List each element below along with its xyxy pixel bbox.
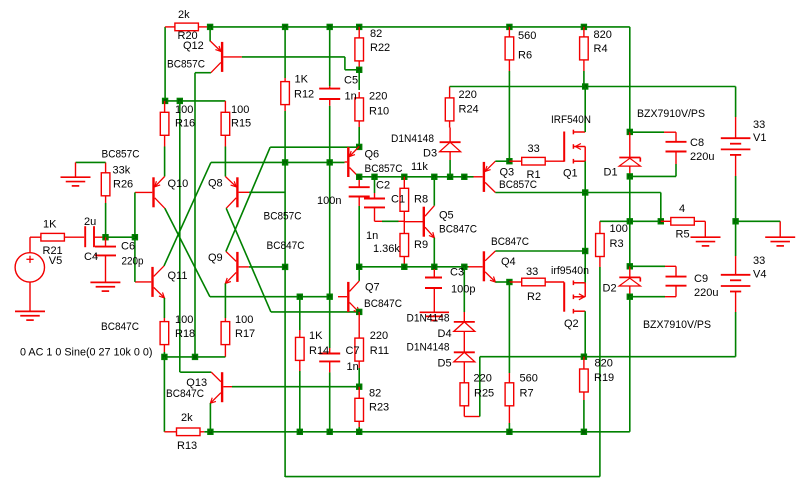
label R11 value	[370, 330, 388, 342]
label Q5 name	[439, 210, 454, 222]
svg-text:0 AC 1 0 Sine(0 27 10k 0 0): 0 AC 1 0 Sine(0 27 10k 0 0)	[20, 347, 153, 359]
wire R25 to -V	[479, 357, 481, 417]
node output / Q3 collector	[582, 189, 588, 195]
mosfet Q1	[563, 130, 585, 164]
wire Q12 base	[223, 56, 345, 58]
lead R14 top red	[299, 330, 301, 337]
node R2 left node	[506, 279, 512, 285]
wire R16 R15 tops	[165, 100, 225, 102]
label R20 value	[178, 9, 190, 21]
lead Q4 base	[468, 266, 483, 268]
resistor R6	[505, 37, 514, 60]
node D1 bottom node	[627, 173, 633, 179]
svg-text:33: 33	[753, 255, 765, 267]
wire R11 bottom	[358, 368, 360, 387]
lead R26 bottom	[105, 196, 107, 203]
label R13 value	[181, 412, 193, 424]
node bus1 / R8	[401, 174, 407, 180]
wire Q1 drain	[584, 87, 586, 133]
wire output rail upper	[584, 161, 586, 283]
wire +V rail	[450, 86, 736, 88]
wire VAS bus	[359, 176, 473, 178]
svg-text:C9: C9	[694, 273, 708, 285]
wire Q8 collector horizontal	[271, 311, 359, 313]
lead R17 bottom	[224, 345, 226, 357]
svg-text:D4: D4	[438, 328, 452, 340]
node input node R26/C4	[102, 234, 108, 240]
transistor Q8	[225, 177, 238, 209]
wire V1 bottom	[735, 176, 737, 221]
transistor Q10	[152, 177, 165, 209]
lead R10 bottom	[358, 121, 360, 127]
wire Q4 emitter	[495, 281, 509, 283]
svg-text:33: 33	[526, 266, 538, 278]
label Q6 type	[365, 163, 403, 175]
node rail1 / R19	[581, 429, 587, 435]
label R6 name	[518, 50, 532, 62]
wire V1 minus to ground	[736, 220, 781, 222]
label R26 name	[113, 179, 133, 191]
label R19 name	[594, 372, 614, 384]
wire R3 bottom	[599, 267, 601, 477]
lead R6 bottom	[508, 60, 510, 71]
svg-text:BC847C: BC847C	[101, 321, 139, 333]
svg-text:220p: 220p	[122, 255, 144, 267]
label C8 name	[690, 137, 704, 149]
svg-text:BC847C: BC847C	[267, 240, 305, 252]
lead R7 bottom	[508, 406, 510, 423]
label R3 value	[610, 223, 628, 235]
node rail1 / R7	[506, 429, 512, 435]
node top rail / R4	[581, 24, 587, 30]
svg-text:R22: R22	[370, 42, 390, 54]
label R9 value	[373, 243, 400, 255]
resistor R9	[400, 234, 409, 257]
label R22 value	[370, 28, 382, 40]
svg-text:1K: 1K	[43, 219, 57, 231]
node bus1 / D4 string	[461, 174, 467, 180]
node bus2 / Q5 emitter	[431, 264, 437, 270]
svg-text:820: 820	[594, 29, 612, 41]
svg-text:1.36k: 1.36k	[373, 243, 400, 255]
wire top rail	[210, 26, 630, 28]
svg-text:R18: R18	[175, 328, 195, 340]
label Q11 name	[168, 270, 188, 282]
wire Q3 collector	[495, 192, 585, 194]
wire Q3 emitter	[495, 160, 509, 162]
zener diode D1	[619, 132, 640, 177]
label Q10 name	[168, 178, 189, 190]
label C2 name	[376, 180, 390, 192]
wire x330 vertical upper	[329, 162, 331, 296]
lead Q13 base	[223, 386, 232, 388]
label R9 name	[414, 239, 428, 251]
wire R10 to Q6 node	[358, 127, 360, 147]
lead R19 bottom	[583, 392, 585, 400]
wire Q11 collector diagonal	[164, 162, 211, 266]
svg-text:C4: C4	[84, 251, 98, 263]
svg-text:100: 100	[610, 223, 628, 235]
label R24 value	[459, 89, 477, 101]
svg-text:220: 220	[474, 373, 492, 385]
lead R18 bottom	[163, 345, 165, 352]
wire D1 to D2	[629, 176, 631, 266]
svg-text:C5: C5	[344, 75, 358, 87]
label R12 value	[295, 73, 309, 85]
label V4 name	[753, 269, 766, 281]
resistor R8	[400, 188, 409, 211]
capacitor C4	[85, 226, 105, 247]
lead R15 bottom	[224, 135, 226, 146]
resistor R11	[355, 338, 364, 361]
label R15 value	[231, 104, 249, 116]
label C5 name	[344, 75, 358, 87]
lead R4 top	[583, 27, 585, 37]
lead R18 top	[163, 318, 165, 322]
label R7 name	[520, 387, 534, 399]
wire R14 top	[299, 297, 301, 330]
capacitor C3	[425, 269, 442, 312]
resistor R19	[580, 369, 589, 392]
label Q1 model	[551, 114, 591, 126]
label D1 model	[637, 108, 705, 120]
label D5 model	[407, 342, 450, 354]
svg-text:BC847C: BC847C	[491, 236, 529, 248]
label Q13 type	[166, 388, 204, 400]
wire Q12 base bend	[345, 57, 359, 70]
svg-text:Q5: Q5	[439, 210, 454, 222]
label Q12 name	[183, 40, 204, 52]
label R16 name	[175, 118, 195, 130]
label R21 value	[43, 219, 57, 231]
wire rail1	[204, 431, 630, 433]
label Q3 type	[499, 179, 537, 191]
wire R26 to ground	[76, 161, 106, 163]
svg-text:100n: 100n	[317, 195, 341, 207]
label R2 name	[527, 291, 541, 303]
resistor R22	[355, 38, 364, 61]
label R14 name	[309, 345, 329, 357]
label R26 type	[102, 149, 140, 161]
lead R9 top	[403, 221, 405, 233]
ground R5 ground	[691, 221, 721, 246]
lead R22 top	[358, 27, 360, 38]
resistor R10	[355, 98, 364, 121]
svg-text:1n: 1n	[366, 230, 378, 242]
svg-text:C7: C7	[346, 345, 360, 357]
label C9 value	[694, 287, 718, 299]
svg-text:1K: 1K	[295, 73, 309, 85]
svg-text:IRF540N: IRF540N	[551, 114, 591, 126]
lead R26 top	[105, 162, 107, 172]
resistor R23	[355, 398, 364, 421]
wire Q8 base	[249, 191, 285, 193]
wire C8 bottom	[630, 164, 676, 176]
lead R24 bottom	[449, 121, 451, 128]
label Q3 name	[500, 167, 515, 179]
label D3 name	[423, 148, 437, 160]
label R23 name	[369, 402, 389, 414]
wire D string top	[629, 27, 631, 132]
svg-text:R3: R3	[610, 238, 624, 250]
node R12 bus left	[282, 159, 288, 165]
svg-text:220: 220	[370, 330, 388, 342]
transistor Q4	[483, 251, 496, 282]
node Q7 emitter node	[356, 309, 362, 315]
label R1 name	[527, 169, 541, 181]
wire R20 left drop	[164, 27, 166, 101]
label R20 name	[178, 30, 198, 42]
label Q4 name	[501, 256, 516, 268]
wire Q10 collector diagonal	[165, 208, 210, 296]
svg-text:Q11: Q11	[168, 270, 188, 282]
wire R7 bottom	[508, 423, 510, 432]
voltage source V1	[721, 117, 751, 176]
lead R9 bottom	[403, 257, 405, 267]
lead R24 top	[449, 87, 451, 98]
lead R7 top	[508, 373, 510, 383]
node sense / R5	[658, 218, 664, 224]
label R8 name	[414, 194, 428, 206]
wire D4 top	[463, 267, 465, 312]
resistor R14	[296, 337, 305, 360]
node input node bases	[132, 234, 138, 240]
node R16 top	[162, 98, 168, 104]
svg-text:R9: R9	[414, 239, 428, 251]
svg-text:BC857C: BC857C	[365, 163, 403, 175]
label Q2 model	[551, 265, 589, 277]
label R5 name	[676, 229, 690, 241]
label R22 name	[370, 42, 390, 54]
svg-text:220u: 220u	[690, 151, 714, 163]
svg-text:R23: R23	[369, 402, 389, 414]
wire C1 bottom	[375, 177, 405, 222]
node D2 top node	[627, 263, 633, 269]
label V1 name	[753, 132, 766, 144]
svg-text:R2: R2	[527, 291, 541, 303]
wire R12 top	[284, 27, 286, 82]
label C6 name	[121, 240, 135, 252]
label C1 name	[391, 194, 405, 206]
capacitor C2	[349, 180, 370, 206]
node +V rail / Q1 drain	[582, 83, 588, 89]
resistor R1	[509, 157, 564, 165]
node Q7 base node	[327, 294, 333, 300]
svg-text:R21: R21	[43, 245, 63, 257]
label R8 value	[411, 161, 428, 173]
node Q12 collector bottom	[192, 354, 198, 360]
wire Q11 emitter	[163, 298, 165, 318]
lead Q6 base	[345, 161, 348, 163]
svg-text:Q4: Q4	[501, 256, 516, 268]
label Q5 type	[439, 224, 477, 236]
node top rail / R6	[506, 24, 512, 30]
wire R19 bottom	[583, 400, 585, 432]
lead R6 top	[508, 27, 510, 37]
wire C7 bottom	[329, 372, 331, 431]
svg-text:100: 100	[235, 314, 253, 326]
label R5 value	[679, 203, 685, 215]
label Q13 name	[186, 377, 207, 389]
node D2 bottom node	[627, 294, 633, 300]
label D2 name	[603, 283, 617, 295]
label R11 name	[370, 345, 389, 357]
svg-text:V4: V4	[753, 269, 766, 281]
label Q1 name	[563, 168, 578, 180]
label V4 value	[753, 255, 765, 267]
wire R12 bottom	[284, 111, 286, 162]
wire R15 to Q8	[224, 147, 226, 177]
label D4 model	[407, 313, 450, 325]
svg-text:Q3: Q3	[500, 167, 515, 179]
lead Q11 base	[135, 281, 151, 283]
resistor R5	[661, 218, 706, 226]
node x180 vertical top	[177, 98, 183, 104]
svg-text:BC847C: BC847C	[439, 224, 477, 236]
resistor R15	[221, 112, 230, 135]
svg-text:D1: D1	[604, 167, 618, 179]
svg-text:1K: 1K	[309, 330, 323, 342]
label R16 value	[175, 104, 193, 116]
label D3 model	[391, 133, 434, 145]
label R21 name	[43, 245, 63, 257]
lead R17 top	[224, 318, 226, 322]
wire C5 top	[329, 27, 331, 86]
svg-text:D1N4148: D1N4148	[391, 133, 434, 145]
resistor R26	[101, 173, 110, 196]
wire C8 top	[630, 131, 664, 133]
label R10 name	[369, 106, 389, 118]
wire Q12 collector	[195, 73, 211, 357]
transistor Q9	[225, 251, 238, 283]
wire R23 bottom	[358, 427, 360, 432]
wire input base vertical	[134, 192, 136, 282]
svg-text:BC847C: BC847C	[364, 298, 402, 310]
capacitor C1	[364, 193, 385, 221]
diode D3	[440, 128, 461, 161]
ground R26 ground	[61, 162, 91, 186]
svg-text:33: 33	[753, 119, 765, 131]
node top rail / R12	[282, 24, 288, 30]
lead Q9 base	[239, 266, 249, 268]
svg-text:220: 220	[369, 90, 387, 102]
wire R6 bottom	[508, 71, 510, 161]
node R18 bottom node	[161, 354, 167, 360]
svg-text:C8: C8	[690, 137, 704, 149]
label Q11 type	[101, 321, 139, 333]
ground C6 ground	[90, 282, 120, 291]
node bus1 / C1	[371, 174, 377, 180]
wire lower bus	[359, 266, 464, 268]
lead R19 top	[583, 357, 585, 369]
svg-text:C3: C3	[450, 267, 464, 279]
wire Q13 collector	[180, 371, 211, 373]
node -V / R19 / Q2 drain	[581, 354, 587, 360]
label C3 value	[451, 284, 475, 296]
svg-text:R11: R11	[370, 345, 389, 357]
resistor R16	[160, 112, 169, 135]
svg-text:R26: R26	[113, 179, 133, 191]
node rail1 / R23	[356, 429, 362, 435]
label C9 name	[694, 273, 708, 285]
transistor Q6	[347, 146, 359, 177]
label Q7 type	[364, 298, 402, 310]
svg-text:Q2: Q2	[564, 318, 579, 330]
lead R3 top red	[599, 221, 601, 233]
svg-text:R6: R6	[518, 50, 532, 62]
wire Q5 collector	[433, 177, 435, 206]
lead Q7 base	[338, 296, 347, 298]
wire rail2	[285, 476, 600, 478]
svg-text:Q6: Q6	[365, 148, 380, 160]
ground V5 ground	[15, 311, 45, 320]
voltage source V4	[721, 256, 751, 312]
wire R2 node to R7	[508, 282, 510, 373]
svg-text:100: 100	[231, 104, 249, 116]
wire Q13 emitter	[209, 403, 211, 432]
node top rail / R22	[356, 24, 362, 30]
wire R13 drop	[163, 357, 165, 432]
label R10 value	[369, 90, 387, 102]
wire Q7 base bus	[210, 296, 330, 298]
svg-text:C6: C6	[121, 240, 135, 252]
lead R11 bottom	[358, 361, 360, 368]
svg-text:220u: 220u	[694, 287, 718, 299]
label Q4 type	[491, 236, 529, 248]
resistor R2	[509, 278, 564, 286]
diode D4	[454, 312, 475, 352]
wire output sense	[600, 220, 661, 222]
svg-text:irf9540n: irf9540n	[551, 265, 589, 277]
wire Q6 emitter bus	[270, 146, 359, 148]
svg-text:BC857C: BC857C	[102, 149, 140, 161]
label D4 name	[438, 328, 452, 340]
wire V1 top	[735, 87, 737, 118]
label R3 name	[610, 238, 624, 250]
lead R25 bottom	[464, 406, 480, 417]
svg-text:100p: 100p	[451, 284, 475, 296]
wire Q9 base	[249, 266, 285, 268]
transistor Q12	[210, 41, 223, 73]
node bus2 / R9	[401, 264, 407, 270]
capacitor C9	[665, 266, 687, 296]
capacitor C7	[319, 348, 340, 372]
svg-text:R7: R7	[520, 387, 534, 399]
capacitor C8	[664, 132, 687, 164]
wire output to R5	[585, 193, 661, 222]
svg-text:C2: C2	[376, 180, 390, 192]
node bus1 / D3	[447, 174, 453, 180]
svg-text:R4: R4	[594, 43, 608, 55]
label R7 value	[520, 373, 538, 385]
lead R12 bottom	[284, 105, 286, 111]
svg-text:R19: R19	[594, 372, 614, 384]
label C1 value	[366, 230, 378, 242]
label Q6 name	[365, 148, 380, 160]
svg-text:R14: R14	[309, 345, 329, 357]
svg-text:R16: R16	[175, 118, 195, 130]
node V1- node	[732, 218, 738, 224]
wire C7 top	[329, 297, 331, 348]
label Q7 name	[365, 282, 380, 294]
svg-text:D2: D2	[603, 283, 617, 295]
node rail1 / R14	[297, 429, 303, 435]
svg-text:BZX7910V/PS: BZX7910V/PS	[637, 108, 705, 120]
label C7 value	[347, 361, 359, 373]
wire C9 bottom	[630, 296, 665, 298]
svg-text:Q10: Q10	[168, 178, 189, 190]
svg-text:R8: R8	[414, 194, 428, 206]
